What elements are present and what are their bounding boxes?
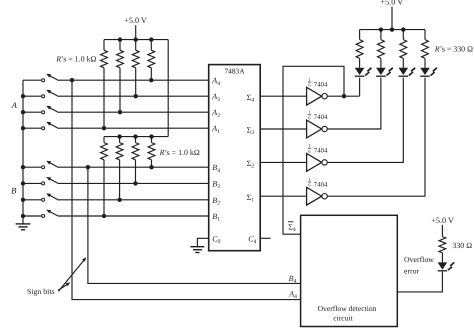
- junction rail2/RB4: [149, 134, 153, 138]
- junction RB4/B4: [149, 165, 153, 169]
- resistor RC4 (330 Ohm): [422, 40, 429, 59]
- wire inverter U2c output to LED3: [327, 78, 403, 163]
- svg-text:7404: 7404: [314, 114, 328, 121]
- resistor RC1 (330 Ohm): [356, 40, 363, 59]
- switch S-A2 (SPST, open): [23, 111, 41, 113]
- switch S-A3 (SPST, open): [23, 95, 41, 97]
- sign-bits arrow to B4 line: [59, 259, 85, 291]
- wire Sigma4 from adder to inverter: [260, 95, 306, 97]
- junction bus/A3 switch: [21, 94, 25, 98]
- LED D3: [399, 68, 409, 75]
- junction rail/RC2: [379, 27, 383, 31]
- junction bus/B2 switch: [21, 198, 25, 202]
- junction rail/RC3: [401, 27, 405, 31]
- svg-text:circuit: circuit: [333, 314, 353, 323]
- wire A1 row: [59, 127, 209, 129]
- wire B2 row: [59, 199, 209, 201]
- svg-text:1: 1: [308, 77, 311, 82]
- ground (C0): [190, 246, 204, 248]
- wire A4 row: [59, 79, 209, 81]
- junction rail/RA3 (+5V feed): [134, 37, 138, 41]
- wire B3 row: [59, 182, 209, 184]
- junction bus/B1 switch: [21, 214, 25, 218]
- LED D4: [420, 68, 430, 75]
- wire C0 to ground: [197, 238, 208, 246]
- junction RA3/A3: [134, 94, 138, 98]
- wire +5V rail to B-bank rail: [167, 40, 169, 137]
- junction RB3/B3: [133, 181, 137, 185]
- svg-text:error: error: [404, 266, 420, 275]
- wire inverter U2a output to LED1: [327, 95, 359, 97]
- svg-text:7404: 7404: [314, 181, 328, 188]
- resistor RB4 (1.0 kOhm, to B4): [148, 143, 155, 160]
- resistor RB1 (1.0 kOhm, to B1): [101, 143, 108, 160]
- svg-text:7483A: 7483A: [224, 66, 245, 75]
- switch S-B4 (SPST, open): [23, 166, 41, 168]
- switch S-A4 (SPST, open): [23, 79, 41, 81]
- resistor RA2 (1.0 kOhm, to A2): [117, 50, 124, 68]
- LED D2: [376, 68, 386, 75]
- svg-text:6: 6: [308, 149, 311, 154]
- svg-text:+5.0 V: +5.0 V: [124, 16, 147, 25]
- svg-text:6: 6: [308, 115, 311, 120]
- wire A3 row: [59, 95, 209, 97]
- junction RB2/B2: [117, 198, 121, 202]
- junction RA4/A4: [149, 78, 153, 82]
- switch S-B1 (SPST, open): [23, 215, 41, 217]
- inverter U2a (1/6 7404): [307, 87, 322, 105]
- wire LED1 cathode down: [359, 78, 361, 97]
- switch S-A1 (SPST, open): [23, 127, 41, 129]
- resistor R5 330 Ohm (overflow LED): [439, 237, 446, 253]
- inverter U2c (1/6 7404): [307, 154, 322, 172]
- junction A4 tap: [70, 78, 74, 82]
- svg-text:330 Ω: 330 Ω: [452, 241, 472, 250]
- junction RB1/B1: [102, 214, 106, 218]
- LED D1: [355, 68, 365, 75]
- junction RA1/A1: [102, 126, 106, 130]
- wire inverter U2b output to LED2: [327, 78, 381, 129]
- svg-text:6: 6: [308, 83, 311, 88]
- junction bus/B3 switch: [21, 181, 25, 185]
- junction B4 tap: [86, 165, 90, 169]
- svg-text:Overflow: Overflow: [404, 255, 434, 264]
- resistor RB3 (1.0 kOhm, to B3): [132, 143, 139, 160]
- switch S-B3 (SPST, open): [23, 182, 41, 184]
- resistor RA4 (1.0 kOhm, to A4): [148, 50, 155, 68]
- svg-text:6: 6: [308, 183, 311, 188]
- svg-text:R’s = 1.0 kΩ: R’s = 1.0 kΩ: [159, 148, 200, 157]
- junction rail2/RB2: [117, 134, 121, 138]
- svg-text:7404: 7404: [314, 148, 328, 155]
- inverter U2b (1/6 7404): [307, 120, 322, 138]
- wire B4 to overflow circuit: [88, 167, 301, 283]
- wire +5V rail (A-bank): [104, 39, 168, 41]
- svg-text:Overflow detection: Overflow detection: [318, 304, 377, 313]
- junction Sigma4-bar tap: [342, 94, 346, 98]
- wire Sigma1 from adder to inverter: [260, 195, 306, 197]
- wire inverter U2d output to LED4: [327, 78, 425, 197]
- resistor RC2 (330 Ohm): [378, 40, 385, 59]
- ground (switch bus): [22, 216, 24, 224]
- svg-text:1: 1: [308, 110, 311, 115]
- switch S-B2 (SPST, open): [23, 199, 41, 201]
- sign-bits arrow to A4 line: [58, 284, 68, 291]
- svg-text:1: 1: [308, 143, 311, 148]
- svg-text:7404: 7404: [314, 81, 328, 88]
- svg-text:Σ4: Σ4: [288, 223, 296, 234]
- junction rail2/RB3: [133, 134, 137, 138]
- wire B1 row: [59, 215, 209, 217]
- wire +5V rail (B-bank): [104, 136, 168, 138]
- junction rail/RA2: [118, 37, 122, 41]
- IC U1 7483A 4-bit adder: [209, 65, 261, 251]
- wire Sigma4-bar feedback to overflow circuit: [283, 66, 344, 234]
- LED D5 (overflow error): [438, 262, 448, 269]
- resistor RA3 (1.0 kOhm, to A3): [132, 50, 139, 68]
- svg-text:Sign bits: Sign bits: [27, 287, 55, 296]
- junction RA2/A2: [118, 110, 122, 114]
- wire C4 stub: [260, 237, 271, 239]
- svg-text:B: B: [11, 186, 17, 196]
- wire B4 row: [59, 166, 209, 168]
- svg-text:B4: B4: [289, 274, 297, 285]
- resistor RC3 (330 Ohm): [400, 40, 407, 59]
- wire A2 row: [59, 111, 209, 113]
- wire switch common bus: [22, 80, 24, 216]
- wire +5V rail (LED bank): [360, 29, 425, 31]
- wire A4 to overflow circuit: [72, 80, 301, 299]
- inverter U2d (1/6 7404): [307, 187, 322, 205]
- svg-text:+5.0 V: +5.0 V: [380, 0, 403, 6]
- svg-text:A4: A4: [288, 289, 297, 300]
- svg-text:+5.0 V: +5.0 V: [431, 216, 454, 225]
- svg-text:A: A: [11, 100, 18, 110]
- junction bus/A2 switch: [21, 110, 25, 114]
- svg-text:R’s = 1.0 kΩ: R’s = 1.0 kΩ: [55, 54, 96, 63]
- junction rail/RA4: [149, 37, 153, 41]
- junction rail/+5V: [390, 27, 394, 31]
- resistor RA1 (1.0 kOhm, to A1): [101, 50, 108, 68]
- junction bus/A1 switch: [21, 126, 25, 130]
- overflow detection circuit block: [301, 215, 398, 326]
- wire Sigma3 from adder to inverter: [260, 128, 306, 130]
- svg-text:R’s = 330 Ω: R’s = 330 Ω: [434, 45, 473, 54]
- svg-text:1: 1: [308, 177, 311, 182]
- junction bus/B4 switch: [21, 165, 25, 169]
- resistor RB2 (1.0 kOhm, to B2): [116, 143, 123, 160]
- wire overflow output to LED5: [397, 272, 442, 292]
- wire resistor to LED5: [441, 253, 443, 263]
- wire Sigma2 from adder to inverter: [260, 161, 306, 163]
